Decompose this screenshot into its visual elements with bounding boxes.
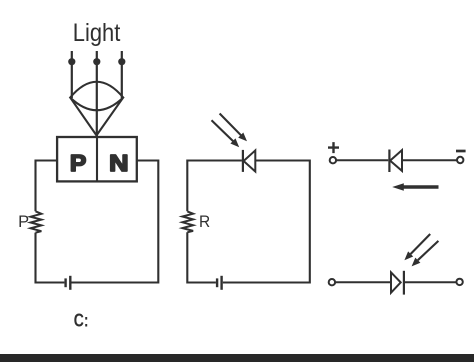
funnel lines to junction	[70, 98, 123, 136]
photodiode D3 triangle	[391, 272, 401, 292]
terminal circle right (bottom figure)	[456, 279, 462, 285]
wire top left circuit 2	[187, 161, 242, 212]
terminal circle left (bottom figure)	[329, 279, 335, 285]
wire left of PN box	[36, 161, 58, 212]
light arrow into D3 (lower)	[412, 241, 439, 267]
light ray 2	[93, 51, 100, 136]
current direction arrow	[392, 183, 438, 191]
battery B2	[217, 276, 222, 290]
svg-text:C:: C:	[74, 311, 89, 331]
terminal circle left (top figure)	[330, 157, 336, 163]
svg-text:N: N	[109, 150, 128, 176]
minus sign	[456, 150, 466, 153]
light ray 1	[68, 51, 75, 98]
photodiode D1 triangle	[244, 150, 256, 171]
svg-text:R: R	[199, 213, 210, 231]
photodiode D3 cathode bar	[403, 271, 405, 295]
bottom bar	[0, 354, 474, 362]
wire bottom and right of circuit 1	[72, 161, 159, 283]
light arrow into D3 (upper)	[404, 234, 430, 260]
wire from photodiode D3	[404, 281, 457, 283]
photodiode D1 cathode bar	[242, 150, 244, 172]
light arrow into D1 (upper)	[220, 114, 247, 142]
wire to photodiode D3	[335, 281, 391, 283]
lens	[70, 82, 123, 111]
diode D2 cathode bar	[388, 150, 390, 173]
wire lower left circuit 2	[187, 232, 216, 282]
resistor R	[182, 211, 193, 232]
terminal circle right (top figure)	[457, 157, 463, 163]
battery B1	[66, 276, 71, 290]
wire lower left	[36, 233, 65, 283]
svg-text:P: P	[70, 150, 86, 176]
PN junction box	[57, 137, 137, 181]
light ray 3	[118, 51, 125, 98]
diode D2 triangle	[390, 150, 402, 171]
resistor P	[31, 211, 42, 232]
wire bottom and right of circuit 2	[223, 161, 310, 283]
light arrow into D1 (lower)	[212, 120, 240, 147]
svg-text:Light: Light	[73, 19, 121, 47]
svg-text:P: P	[18, 213, 29, 231]
wire to diode D2	[336, 159, 388, 161]
wire from diode D2	[402, 159, 457, 161]
plus sign	[328, 142, 339, 153]
